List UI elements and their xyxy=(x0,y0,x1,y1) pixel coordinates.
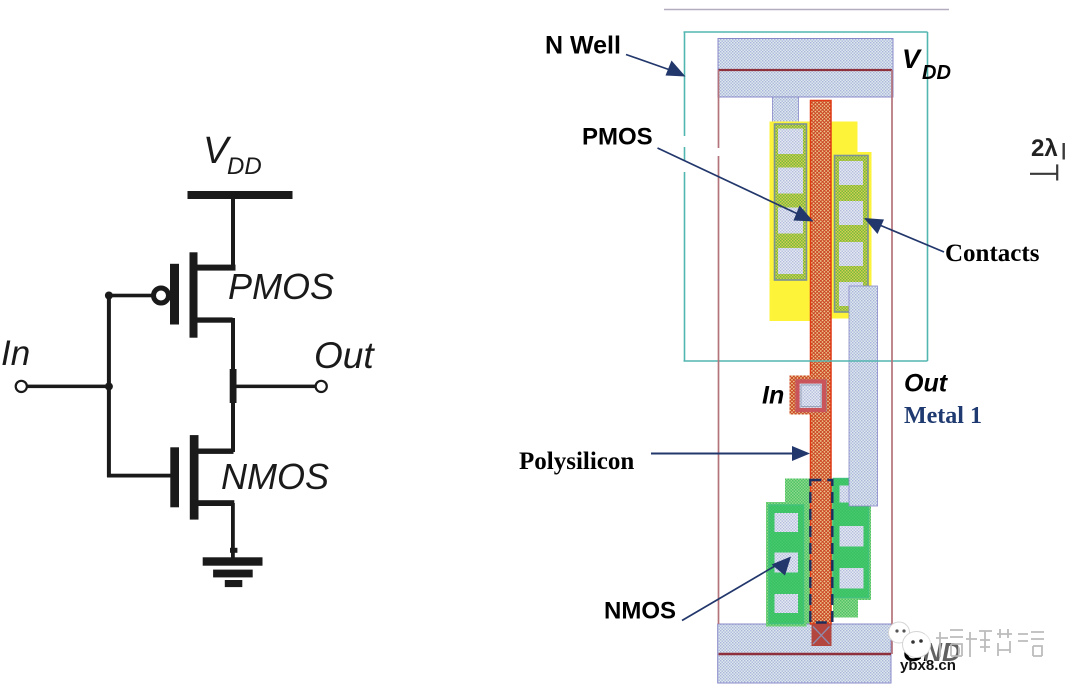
svg-text:Out: Out xyxy=(314,335,375,376)
wire PMOS drain stub xyxy=(197,317,233,322)
Out terminal circle xyxy=(316,381,327,392)
NMOS n-select stipple strip center xyxy=(802,479,812,624)
node In junction xyxy=(105,382,113,390)
wire NMOS source to ground xyxy=(231,503,235,558)
contacts PMOS right squares xyxy=(839,161,863,306)
PMOS left contact column xyxy=(775,124,807,280)
wire NMOS gate horizontal xyxy=(107,474,172,478)
svg-text:Polysilicon: Polysilicon xyxy=(519,448,634,475)
Out metal strip xyxy=(849,286,878,506)
node Out junction bar xyxy=(230,369,237,403)
poly contact pad at In xyxy=(790,376,829,415)
wire PMOS gate xyxy=(107,294,154,298)
p-diffusion yellow left xyxy=(770,122,811,322)
arrow N Well xyxy=(626,55,686,77)
ground bar 2 xyxy=(213,570,253,578)
VDD supply bar xyxy=(188,191,293,199)
svg-text:DD: DD xyxy=(227,153,262,180)
wire Out xyxy=(236,385,315,389)
polysilicon strip xyxy=(811,101,832,625)
wire gate trunk vertical xyxy=(107,295,111,477)
svg-text:PMOS: PMOS xyxy=(582,124,653,151)
svg-text:NMOS: NMOS xyxy=(221,456,329,497)
NMOS right diffusion column xyxy=(834,479,869,598)
arrow PMOS xyxy=(658,148,814,222)
svg-text:PMOS: PMOS xyxy=(228,266,334,307)
transistor Q1 PMOS channel bar xyxy=(190,252,198,337)
transistor Q1 PMOS gate bar xyxy=(170,264,179,325)
svg-text:DD: DD xyxy=(922,62,951,84)
svg-text:V: V xyxy=(902,44,922,74)
svg-text:2λ: 2λ xyxy=(1031,135,1058,162)
GND metal rail xyxy=(718,624,891,683)
svg-text:ybx8.cn: ybx8.cn xyxy=(900,657,956,674)
In contact metal square xyxy=(801,385,821,407)
wire output trunk vertical xyxy=(231,318,235,452)
svg-text:Out: Out xyxy=(904,370,949,398)
svg-text:In: In xyxy=(1,334,30,373)
2 lambda tick xyxy=(1063,143,1065,160)
In contact ring xyxy=(798,382,825,411)
VDD metal rail xyxy=(718,39,893,98)
transistor Q2 NMOS gate bar xyxy=(170,447,179,507)
n-well bottom border over metal xyxy=(684,360,928,362)
contacts NMOS left squares xyxy=(775,513,799,613)
arrow Contacts xyxy=(864,218,944,252)
NMOS n-select stipple frame left xyxy=(766,502,807,627)
metal strip VDD to PMOS source xyxy=(773,97,799,125)
contacts NMOS right squares xyxy=(840,486,864,589)
p-diffusion yellow right xyxy=(830,152,872,319)
contacts PMOS left squares xyxy=(778,129,803,275)
svg-text:Contacts: Contacts xyxy=(945,240,1040,267)
watermark logo bubbles xyxy=(889,622,931,658)
svg-text:Metal 1: Metal 1 xyxy=(904,403,982,429)
NMOS n-select stipple below right xyxy=(833,593,858,618)
svg-text:In: In xyxy=(762,382,784,410)
wire NMOS drain stub xyxy=(199,449,234,454)
label VDD (layout) xyxy=(902,44,951,84)
label VDD (schematic) xyxy=(203,130,262,180)
svg-text:NMOS: NMOS xyxy=(604,598,676,625)
arrow NMOS xyxy=(682,557,791,621)
PMOS right contact column xyxy=(835,156,869,313)
svg-text:N Well: N Well xyxy=(545,32,621,60)
wire PMOS source stub xyxy=(197,265,236,271)
p-diffusion yellow top right band xyxy=(830,122,858,153)
node ground connection blob xyxy=(230,548,237,553)
In terminal circle xyxy=(16,381,27,392)
top boundary thin line xyxy=(664,9,949,11)
ground bar 3 xyxy=(225,580,243,587)
ground bar 1 xyxy=(203,557,263,565)
dimension mark xyxy=(1030,164,1058,180)
NMOS gate dashed box xyxy=(810,480,832,623)
wire In xyxy=(28,385,112,389)
wire VDD bar to PMOS source xyxy=(231,199,235,267)
node gate junction xyxy=(105,292,113,300)
poly substrate contact brick xyxy=(812,624,832,646)
In contact metal pad xyxy=(796,380,826,412)
substrate boundary maroon rect xyxy=(719,70,893,654)
NMOS n-select stipple base xyxy=(785,479,871,601)
NMOS left diffusion column xyxy=(769,505,804,624)
n-well boundary (teal) xyxy=(684,32,928,361)
watermark CJK text 梧桐芯语 xyxy=(925,625,958,661)
transistor Q1 PMOS gate bubble xyxy=(154,288,169,303)
transistor Q2 NMOS channel bar xyxy=(190,435,199,519)
arrow Polysilicon xyxy=(651,446,810,461)
wire NMOS source stub xyxy=(199,500,235,506)
